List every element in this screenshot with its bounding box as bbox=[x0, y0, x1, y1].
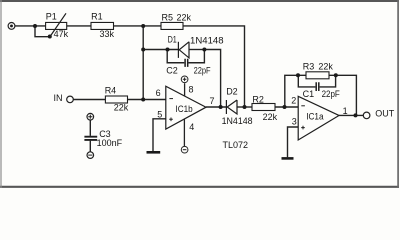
svg-text:1N4148: 1N4148 bbox=[190, 35, 224, 45]
svg-text:R1: R1 bbox=[91, 12, 103, 22]
svg-text:7: 7 bbox=[210, 96, 215, 106]
svg-text:8: 8 bbox=[189, 85, 194, 95]
svg-text:C1: C1 bbox=[303, 89, 315, 99]
svg-text:OUT: OUT bbox=[375, 109, 395, 119]
svg-text:IC1a: IC1a bbox=[306, 111, 323, 121]
svg-text:22pF: 22pF bbox=[194, 65, 211, 75]
svg-text:22k: 22k bbox=[177, 12, 192, 22]
svg-text:R3: R3 bbox=[303, 61, 315, 71]
svg-text:3: 3 bbox=[292, 117, 297, 127]
svg-text:IN: IN bbox=[54, 93, 63, 103]
svg-text:D2: D2 bbox=[226, 86, 238, 96]
svg-text:22k: 22k bbox=[263, 112, 278, 122]
svg-text:1N4148: 1N4148 bbox=[222, 116, 253, 126]
svg-text:2: 2 bbox=[291, 95, 296, 105]
svg-text:P1: P1 bbox=[46, 12, 57, 22]
svg-text:R2: R2 bbox=[252, 95, 264, 105]
svg-text:D1: D1 bbox=[168, 34, 177, 44]
svg-text:22pF: 22pF bbox=[322, 89, 341, 99]
svg-text:6: 6 bbox=[156, 88, 161, 98]
svg-text:IC1b: IC1b bbox=[176, 104, 193, 114]
svg-text:22k: 22k bbox=[114, 103, 129, 113]
svg-text:100nF: 100nF bbox=[97, 138, 123, 148]
svg-text:4: 4 bbox=[189, 122, 194, 132]
svg-text:47k: 47k bbox=[54, 29, 69, 39]
svg-text:33k: 33k bbox=[100, 29, 115, 39]
svg-text:R5: R5 bbox=[162, 12, 174, 22]
svg-text:C2: C2 bbox=[166, 65, 178, 75]
svg-text:TL072: TL072 bbox=[223, 140, 249, 150]
svg-text:22k: 22k bbox=[318, 61, 333, 71]
svg-text:R4: R4 bbox=[105, 86, 117, 96]
svg-text:5: 5 bbox=[157, 110, 162, 120]
svg-text:1: 1 bbox=[343, 106, 348, 116]
